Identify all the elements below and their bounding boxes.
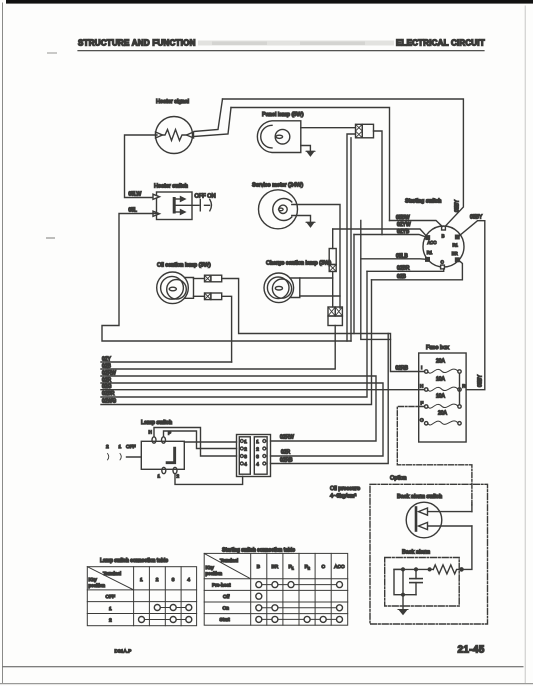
panel lamp bulb (275, 129, 290, 144)
ground (back alarm) (398, 610, 408, 615)
scan left edge line (2, 3, 4, 683)
connector CN1 (panel) (356, 124, 363, 138)
starting switch connection table (204, 553, 348, 625)
svg-text:1: 1 (119, 444, 122, 450)
svg-text:Terminal: Terminal (220, 558, 238, 564)
svg-text:3: 3 (244, 454, 247, 459)
svg-text:Starting switch: Starting switch (405, 199, 441, 205)
heater switch lower contact (176, 211, 184, 213)
bottom wire (403, 594, 416, 596)
bus wire 02RW (101, 376, 376, 441)
wire: lamp switch right to connector pin1 (184, 441, 236, 443)
wire: top line 2 across (231, 108, 390, 221)
wire: oil lamp to connectors (194, 278, 205, 280)
heater switch box (157, 192, 193, 220)
svg-text:05L: 05L (129, 208, 138, 214)
wire: 05L path down-left (102, 214, 351, 342)
connector CN2 (fusible link) (329, 249, 336, 265)
on row connections (259, 607, 340, 609)
wire: terminal H to connector pin3 (154, 428, 237, 457)
wire: top line 1 across and down to starting switch B (223, 99, 464, 226)
footer rule (3, 666, 523, 668)
fuse right bus (459, 373, 461, 405)
svg-text:Key: Key (206, 565, 215, 571)
svg-text:position: position (89, 583, 106, 589)
terminal R1 left (426, 258, 430, 262)
svg-text:20A: 20A (438, 411, 448, 417)
wire: R1 to fuse box R (05BY) (459, 221, 485, 390)
svg-text:02R: 02R (281, 450, 291, 456)
svg-text:05BY: 05BY (455, 199, 461, 212)
svg-text:Starting switch connection tab: Starting switch connection table (222, 548, 295, 554)
wire: 02YB drop (353, 235, 355, 334)
svg-text:2: 2 (256, 447, 259, 452)
lamp switch box (141, 441, 184, 469)
heater signal element (zigzag) (161, 130, 187, 141)
svg-text:3: 3 (172, 577, 175, 583)
svg-text:4: 4 (187, 577, 190, 583)
preheat row connections (259, 584, 340, 586)
svg-text:D31A.P: D31A.P (115, 649, 132, 654)
wire: terminal P to connector pin2 (164, 431, 237, 449)
wire: charge lamp upper tap (300, 277, 333, 279)
node dot bottom (402, 593, 405, 596)
lamp connector right inner (254, 437, 267, 474)
svg-text:Heater switch: Heater switch (154, 184, 188, 190)
svg-text:OFF: OFF (106, 594, 116, 600)
charge caution lamp housing (264, 273, 294, 303)
svg-text:F: F (421, 401, 424, 406)
heater switch terminal arrows (153, 194, 160, 199)
svg-text:05BY: 05BY (470, 215, 483, 221)
terminal BR (456, 258, 460, 262)
svg-text:Key: Key (89, 577, 98, 583)
svg-text:3: 3 (256, 454, 259, 459)
scan bottom edge (0, 683, 533, 685)
capacitor C (415, 569, 417, 578)
ground (panel lamp) (306, 151, 315, 156)
svg-text:2: 2 (244, 447, 247, 452)
wire: charge lamp lower tap (300, 295, 340, 297)
wire: heater signal to top line 1 (194, 99, 223, 132)
wire: connector lower pin to trunk A (347, 134, 356, 341)
oil caution lamp bulb (167, 280, 187, 300)
svg-text:BR: BR (272, 564, 279, 570)
wire: connector output to trunk C (374, 131, 383, 235)
header smudge band (198, 41, 394, 46)
svg-text:4: 4 (244, 462, 247, 467)
resistor R (433, 565, 461, 574)
service meter (259, 190, 298, 229)
wire: terminal 2 loop to connector bottom (175, 474, 243, 485)
coil loop rect (394, 569, 403, 594)
svg-text:B: B (442, 234, 445, 239)
bus wire 02WG (101, 280, 372, 405)
oil lamp connector lower (205, 293, 211, 300)
bus wire 02B to CN3 (101, 334, 335, 370)
wire 05BW into B (390, 221, 443, 227)
header underline (78, 50, 484, 52)
wire 02YW into ACC (333, 229, 427, 236)
back alarm internal top wire (394, 568, 433, 570)
scan smudge left (47, 52, 57, 54)
svg-text:Lamp switch connection table: Lamp switch connection table (100, 558, 168, 564)
wire 02RB from lamp connector (271, 334, 389, 464)
wire 02BR into C (367, 269, 444, 272)
wire: service meter output to small connector (292, 205, 340, 309)
lamp connector left inner (239, 437, 250, 474)
back alarm switch upper contact arrow (426, 511, 472, 513)
lamp switch terminal 1 (162, 467, 166, 473)
svg-text:2: 2 (156, 577, 159, 583)
svg-text:I: I (421, 365, 422, 370)
heater signal right terminal arrow (187, 132, 194, 138)
svg-text:Back alarm: Back alarm (402, 550, 430, 556)
svg-text:1: 1 (140, 577, 143, 583)
svg-text:Oil pressure: Oil pressure (330, 486, 360, 492)
wire: CN2 to charge lamp vertical (332, 272, 334, 308)
svg-text:ELECTRICAL CIRCUIT: ELECTRICAL CIRCUIT (396, 39, 485, 48)
svg-text:Off: Off (223, 594, 230, 600)
svg-text:1: 1 (292, 567, 294, 571)
wire: heater left to 05LW vertical (125, 135, 158, 198)
svg-text:2: 2 (177, 474, 180, 479)
right pins (256, 439, 266, 467)
svg-text:BR: BR (452, 251, 458, 256)
svg-text:Option: Option (390, 476, 406, 482)
svg-text:1: 1 (256, 439, 259, 444)
lamp switch blade (166, 447, 176, 464)
starting switch (423, 226, 464, 267)
wire: trunk B vertical (350, 138, 352, 341)
svg-text:1: 1 (244, 439, 247, 444)
svg-text:Charge caution lamp (3W): Charge caution lamp (3W) (266, 261, 331, 267)
svg-text:Start: Start (220, 617, 231, 623)
fuse box (419, 353, 466, 442)
heater switch lever line (175, 204, 199, 206)
svg-text:C: C (441, 259, 444, 264)
bus wire 02R (101, 383, 383, 456)
svg-text:H: H (420, 384, 423, 389)
option box (dash-dot) (370, 484, 488, 624)
svg-text:Service meter (24W): Service meter (24W) (252, 183, 303, 189)
svg-text:Lamp switch: Lamp switch (141, 420, 172, 426)
back alarm box (dash-dot) (385, 558, 460, 607)
svg-text:ACC: ACC (428, 240, 437, 245)
svg-text:On: On (223, 606, 230, 612)
back alarm switch (406, 502, 442, 538)
svg-text:2: 2 (308, 567, 310, 571)
off row connections (256, 593, 262, 599)
wire: fuse F option feed (dash-dot) (397, 407, 472, 506)
wire: B line drop to fuse feed (361, 221, 391, 340)
wire: oil lower connector down to 02Y bus (222, 296, 232, 362)
position arcs (108, 454, 109, 460)
svg-text:H: H (149, 430, 152, 435)
heater signal left terminal arrow (156, 132, 163, 138)
wire: lower contact to back alarm (462, 526, 472, 569)
svg-text:Pre-heat: Pre-heat (212, 583, 231, 589)
svg-text:1: 1 (109, 606, 112, 612)
svg-text:02RB: 02RB (396, 366, 409, 372)
svg-text:R1: R1 (427, 250, 433, 255)
terminal R1 right (456, 235, 460, 239)
svg-text:2: 2 (106, 444, 109, 450)
heater switch upper contact (176, 198, 184, 200)
row 1 connections (157, 607, 189, 609)
svg-text:4: 4 (256, 462, 259, 467)
back alarm switch bar (415, 508, 418, 531)
lamp switch terminal 2 (173, 467, 177, 473)
oil lamp connector upper (205, 275, 211, 282)
bus wire 02BR (101, 271, 367, 397)
svg-text:02RW: 02RW (280, 435, 294, 441)
lamp connector outer (237, 435, 271, 477)
left pins (240, 439, 247, 467)
wire: heater signal to top line 2 (194, 108, 231, 137)
node dots (402, 568, 405, 571)
oil caution lamp housing (157, 272, 189, 304)
svg-text:Heater signal: Heater signal (156, 99, 189, 105)
scan top bar (6, 0, 533, 4)
svg-text:20A: 20A (436, 359, 446, 365)
wire 05LB into R1 left (361, 258, 426, 261)
svg-text:1: 1 (158, 474, 161, 479)
wire: oil upper connector to fuse I feed line (222, 279, 425, 372)
terminal ACC (426, 236, 430, 240)
wire into lamp switch left (127, 456, 142, 458)
service meter ground wire (292, 216, 311, 223)
svg-text:Back alarm switch: Back alarm switch (397, 494, 442, 500)
terminal B (442, 226, 446, 230)
svg-text:STRUCTURE AND FUNCTION: STRUCTURE AND FUNCTION (78, 39, 196, 48)
svg-text:10A: 10A (436, 394, 446, 400)
row 2 connections (142, 619, 189, 621)
svg-text:21-45: 21-45 (458, 645, 485, 656)
svg-text:05BY: 05BY (478, 374, 484, 387)
svg-text:4~6kg/cm²: 4~6kg/cm² (330, 494, 356, 500)
wire 02B into BR (372, 261, 463, 280)
svg-text:Oil caution lamp (3W): Oil caution lamp (3W) (157, 263, 211, 269)
ground drop (402, 595, 404, 610)
heater switch blade (173, 199, 176, 213)
svg-text:B: B (257, 564, 260, 570)
panel lamp ground wire (301, 146, 311, 152)
bus wire 02G to fuse H (101, 389, 425, 391)
wire: CN2 feed from 02YW (332, 229, 334, 249)
svg-text:OFF ON: OFF ON (195, 194, 216, 200)
lamp switch connection table (87, 567, 196, 626)
svg-text:O: O (420, 418, 424, 423)
svg-text:10A: 10A (436, 377, 446, 383)
back alarm switch lower contact arrow (426, 525, 472, 527)
svg-text:02RB: 02RB (280, 458, 293, 464)
wire: CN3 down to fuse feed line (334, 326, 336, 334)
panel lamp housing (257, 121, 300, 153)
wire: panel lamp to connector (301, 127, 356, 129)
bus wire 02Y (101, 361, 232, 363)
start row connections (259, 618, 340, 620)
svg-text:Panel lamp (5W): Panel lamp (5W) (262, 112, 304, 118)
svg-text:R1: R1 (453, 242, 459, 247)
ground (service meter) (306, 222, 315, 227)
svg-text:C: C (322, 564, 326, 570)
wire: upper contact up (471, 503, 473, 512)
charge caution lamp bulb (272, 279, 291, 298)
scan right edge line (524, 6, 526, 683)
svg-text:02YW: 02YW (397, 222, 411, 228)
heater signal lamp (156, 117, 193, 154)
svg-text:ACC: ACC (334, 564, 345, 570)
svg-text:Fuse box: Fuse box (426, 345, 449, 351)
svg-text:OFF: OFF (126, 444, 136, 450)
svg-text:position: position (206, 571, 223, 577)
svg-text:2: 2 (109, 618, 112, 624)
connector CN3 (big) (328, 307, 335, 316)
svg-text:Terminal: Terminal (103, 571, 121, 577)
wire 02YB into ACC (354, 235, 426, 238)
terminal C (441, 265, 445, 269)
svg-text:05LW: 05LW (129, 192, 142, 198)
